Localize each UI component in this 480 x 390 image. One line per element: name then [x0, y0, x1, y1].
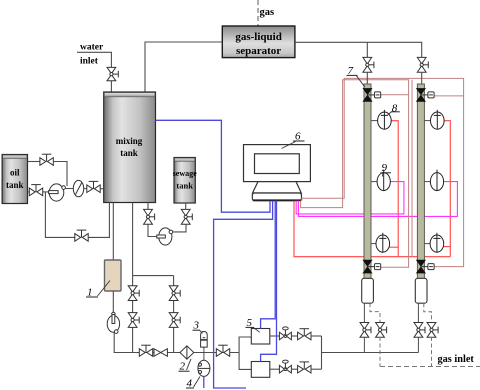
dashed bypass col1 [370, 303, 380, 323]
valve col1 top [363, 57, 374, 72]
wire right drain column [173, 276, 175, 353]
wire [292, 335, 298, 337]
sample pot col2 [415, 278, 427, 303]
main line left section [140, 352, 240, 354]
level gauge 9 col1 [377, 170, 390, 191]
pressure gauge 8 col1 [378, 110, 392, 129]
svg-text:8: 8 [392, 102, 398, 114]
lower gauge col2 [430, 233, 444, 252]
wire manifold cross link [133, 275, 174, 277]
oil line upper: tank to pump riser [28, 161, 41, 163]
black valve col2 lower + actuator [417, 260, 435, 273]
wire tube to level gauge 9 [371, 181, 377, 183]
svg-text:gas-liquid: gas-liquid [235, 31, 281, 43]
heater 1 [105, 260, 122, 291]
brown stub col1 upper actuator [380, 94, 409, 96]
label 9 [381, 162, 392, 177]
black valve col1 upper + actuator [363, 89, 381, 102]
water inlet line [77, 52, 111, 67]
pressure gauge col2 [431, 110, 445, 129]
filter box 5 [251, 329, 269, 345]
valve drain L1 [128, 286, 139, 301]
label 5 [246, 317, 260, 332]
monitor 6 [244, 145, 311, 201]
red riser column2 [444, 121, 450, 257]
blue cable mixing tank to monitor [156, 120, 271, 212]
wire separator right header [295, 42, 422, 57]
magenta cable to col2 level gauge [298, 182, 457, 217]
svg-text:mixing: mixing [116, 136, 143, 146]
wire tube to level gauge col2 [424, 181, 430, 183]
magenta cable to col1 level gauge [296, 182, 404, 214]
label 6 [282, 131, 305, 149]
gas dashed vent line [257, 0, 259, 26]
wire tube to lower gauge col2 [424, 243, 430, 245]
valve col1 drain solid [360, 323, 371, 338]
svg-text:9: 9 [382, 162, 388, 174]
pump oil (gear pump) [49, 184, 66, 201]
wire bottom branch [270, 368, 279, 370]
valve oil lower [29, 185, 42, 196]
wire valve to pump [43, 191, 50, 193]
wire top branch [270, 335, 279, 337]
wire tank bottom to heater [112, 203, 114, 261]
wire valve to mixing tank top [110, 81, 112, 93]
label 8 [387, 102, 400, 115]
main line right section [322, 352, 419, 354]
valve drain R2 [169, 313, 180, 328]
gas inlet dashed header [380, 366, 480, 368]
filter box lower [251, 362, 269, 378]
separator skid branch bracket left [239, 337, 251, 369]
motor 4 (circle) [198, 353, 210, 377]
wire valve to sewage tank [185, 203, 187, 209]
wire pot to drain valve [363, 303, 365, 323]
wire bottom branch to right bracket [311, 368, 322, 370]
tube column 1 [364, 84, 371, 279]
svg-text:sewage: sewage [173, 169, 197, 178]
svg-text:gas inlet: gas inlet [438, 354, 475, 365]
valve main 3 [216, 345, 229, 356]
wire tank bottom drain manifold [132, 203, 134, 353]
gas-liquid separator vessel [222, 26, 295, 58]
brown cable to col1 valve actuators [301, 80, 409, 267]
level gauge col2 [430, 170, 443, 191]
blue stub to motor 4 [203, 377, 205, 388]
valve col2 bypass [427, 323, 438, 338]
wire top branch to right bracket [311, 335, 322, 337]
sample pot col1 [362, 278, 374, 303]
flow meter 2 (diamond) [180, 346, 194, 359]
svg-text:tank: tank [120, 148, 138, 158]
wire separator left to mixing tank top [145, 42, 222, 92]
valve drain L2 [128, 313, 139, 328]
red riser column1 [391, 121, 398, 257]
valve col1 bypass [376, 323, 387, 338]
wire drain to mixing tank bottom [88, 203, 109, 238]
valve transfer left [144, 209, 155, 224]
wire valve to main line [363, 337, 365, 353]
brown spare riser [411, 80, 413, 256]
valve col2 top [417, 57, 428, 72]
dashed bypass col2 [424, 303, 432, 323]
damper 3 (capsule) [201, 332, 208, 353]
blue cable monitor to lower filter box [261, 201, 277, 362]
valve main 2 [154, 349, 167, 357]
wire valve to riser [53, 162, 67, 187]
oil line lower: tank to valve [28, 191, 30, 193]
rotameter oil [65, 180, 88, 196]
wire to transfer pump [148, 224, 158, 236]
valve branch bot B [298, 362, 311, 373]
dashed wire bypass down [379, 337, 381, 367]
black valve col1 lower + actuator [363, 260, 381, 273]
svg-text:water: water [80, 43, 104, 53]
wire heater to pump [112, 291, 114, 316]
wire valve to main line end [417, 337, 419, 353]
svg-text:separator: separator [236, 45, 281, 57]
wire to tube [366, 72, 368, 85]
red cable monitor bus [294, 201, 450, 257]
wire to tube [421, 72, 423, 85]
svg-text:gas: gas [260, 7, 275, 18]
wire pot to drain valve col2 [417, 303, 419, 323]
label 7 [347, 65, 365, 87]
red stub col2 lower instrument [444, 246, 451, 248]
wire pump to main line [114, 332, 139, 352]
valve branch bot A [279, 360, 291, 373]
svg-text:oil: oil [10, 168, 20, 178]
valve drain R1 [169, 286, 180, 301]
valve main 1 [139, 345, 152, 356]
dashed wire bypass down col2 [431, 337, 433, 367]
wire mixing tank bottom to transfer valve [147, 203, 149, 210]
valve oil upper [40, 154, 53, 165]
black valve col2 upper + actuator [417, 89, 435, 102]
valve branch top B [298, 329, 311, 340]
red stub col1 lower instrument [389, 246, 398, 248]
blue cable monitor to filter box 5 [261, 201, 276, 329]
wire to mixing tank [100, 188, 104, 190]
label 2 [179, 359, 192, 373]
valve oil drain [75, 230, 88, 241]
oil drain loop wire [45, 192, 75, 237]
wire tube to pressure gauge col2 [424, 120, 430, 122]
brown stub col2 upper actuator [433, 95, 464, 97]
svg-text:tank: tank [6, 180, 24, 190]
label 4 [186, 377, 200, 390]
wire branch to column 1 valve [366, 42, 368, 57]
brown cable to col2 valve actuators [302, 78, 464, 266]
valve col2 drain solid [414, 323, 425, 338]
pump transfer [157, 228, 173, 245]
label 3 [193, 320, 203, 334]
sewage tank [173, 158, 197, 204]
wire [292, 368, 298, 370]
oil tank [2, 155, 27, 204]
valve branch top A [279, 327, 291, 340]
bracket right + outlet [321, 336, 323, 369]
wire tube to pressure gauge 8 [371, 120, 378, 122]
mixing tank [104, 92, 156, 203]
lower gauge col1 [376, 233, 390, 252]
tube column 2 [417, 84, 424, 279]
valve transfer right [181, 209, 192, 224]
valve oil inlet to mixing tank [87, 181, 100, 192]
wire tube to lower gauge col1 [371, 243, 376, 245]
svg-text:tank: tank [176, 181, 193, 191]
blue cable monitor to motor 4 [214, 201, 273, 388]
label 1 [86, 281, 110, 299]
wire pump outlet to sewage valve [173, 224, 186, 232]
valve water inlet [107, 67, 118, 80]
pump heater outlet [107, 312, 119, 333]
svg-text:inlet: inlet [80, 57, 99, 67]
